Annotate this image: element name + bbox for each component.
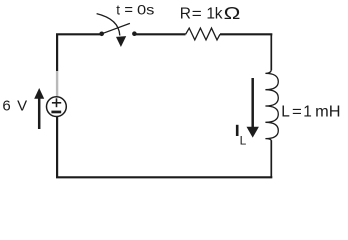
wire top-left segment <box>57 34 102 71</box>
inductor current arrow IL (down) <box>247 78 259 138</box>
switch S1 blade <box>102 23 130 33</box>
label IL <box>236 125 247 148</box>
wire from right switch contact to resistor <box>134 33 185 35</box>
svg-text:t: t <box>116 3 120 18</box>
resistor R zigzag <box>186 28 220 40</box>
svg-text:L: L <box>240 133 247 147</box>
node: switch left contact <box>99 32 104 37</box>
inductor L coil <box>265 70 278 141</box>
svg-text:R: R <box>180 6 191 23</box>
svg-text:6 V: 6 V <box>2 98 28 115</box>
wire from resistor to top-right corner and down to inductor <box>220 33 272 35</box>
wire top-right corner down to inductor <box>270 34 272 71</box>
svg-text:0s: 0s <box>137 2 154 18</box>
svg-text:=: = <box>124 2 133 19</box>
voltage polarity arrow (up) <box>34 88 44 129</box>
svg-text:k: k <box>215 6 223 23</box>
wire left-bottom and bottom and right-bottom <box>57 116 272 177</box>
svg-text:mH: mH <box>315 104 340 121</box>
voltage source V1 circle <box>47 97 67 117</box>
voltage source plus sign <box>52 98 61 107</box>
label t = 0s <box>116 2 154 19</box>
svg-text:1: 1 <box>206 6 215 23</box>
svg-text:L: L <box>281 104 290 121</box>
svg-text:=: = <box>192 6 202 23</box>
label R = 1 kOhm <box>180 3 241 23</box>
svg-text:=: = <box>292 104 302 121</box>
svg-text:1: 1 <box>303 104 312 121</box>
wire inductor bottom to corner <box>270 140 272 177</box>
label 6 V <box>2 98 28 115</box>
switch arc arrowhead <box>116 36 126 47</box>
switch actuation arc <box>97 14 120 36</box>
voltage source minus bar <box>51 111 61 114</box>
node: switch right contact <box>132 31 137 36</box>
svg-text:Ω: Ω <box>224 3 241 23</box>
wire gray segment above source <box>56 71 58 97</box>
label L = 1 mH <box>281 104 340 121</box>
